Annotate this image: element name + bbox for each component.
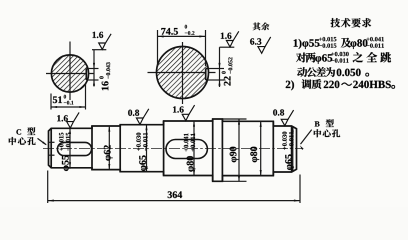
shaft outline profile bbox=[49, 119, 297, 181]
dimension phi62 bbox=[104, 126, 113, 170]
dimension phi90 with extension lines bbox=[222, 119, 246, 181]
roughness 1.6 on phi55 section bbox=[57, 112, 79, 128]
dimension 364 overall length bbox=[48, 171, 300, 204]
keyway notch on circle phi55 bbox=[86, 69, 88, 81]
label C type center hole with leader bbox=[9, 127, 47, 145]
dimension phi65 +0.030/+0.011 right journal bbox=[282, 126, 294, 172]
tech requirements line 1 bbox=[294, 37, 384, 49]
shaft centerline bbox=[43, 148, 302, 150]
roughness 1.6 on keyway flat of circle phi80 bbox=[220, 31, 239, 47]
dimension 16 0/-0.043 keyway width circle phi55 bbox=[88, 50, 111, 90]
dimension phi80 right plain section bbox=[250, 121, 261, 175]
label B type center hole with leader bbox=[300, 119, 340, 150]
section A-A circle phi55 hatched body bbox=[51, 55, 89, 92]
dimension 74.5 0/-0.2 above circle phi80 bbox=[158, 25, 206, 67]
keyway slot on phi55 section bbox=[57, 142, 91, 155]
keyway slot on phi80 section bbox=[166, 140, 207, 159]
roughness 0.8 on phi65 right journal bbox=[273, 109, 293, 125]
tech requirements line 2 bbox=[296, 52, 391, 64]
dimension phi55 +0.015/-0.015 bbox=[59, 128, 71, 171]
section B-B circle phi80 hatched body bbox=[157, 47, 209, 99]
left end face chamfer line and right end chamfer line bbox=[51, 126, 291, 172]
note qiyu (other surfaces) 6.3 symbol bbox=[250, 23, 271, 54]
keyway notch on circle phi80 bbox=[206, 69, 209, 81]
dimension 22 0/-0.052 keyway width circle phi80 bbox=[208, 47, 232, 87]
tech requirements line 3 bbox=[297, 67, 368, 77]
tech requirements line 4 bbox=[286, 79, 395, 90]
section B-B circle phi80 centerlines bbox=[148, 42, 216, 104]
tech requirements title bbox=[331, 18, 372, 27]
dimension 51 0/-0.1 below circle phi55 bbox=[51, 84, 86, 110]
section A-A circle phi55 centerlines bbox=[46, 42, 95, 101]
shaft step lines bbox=[92, 119, 273, 181]
dimension phi80 +0.041/+0.011 keyed section bbox=[184, 121, 196, 176]
roughness 1.6 on phi80 keyed section bbox=[173, 105, 195, 121]
dimension phi65 +0.030/-0.011 left bbox=[136, 125, 148, 172]
roughness 0.8 on phi65 left section bbox=[128, 109, 149, 125]
roughness 1.6 on keyway flat of circle phi55 bbox=[92, 32, 111, 50]
C type center hole marks on left end face bbox=[49, 142, 55, 155]
